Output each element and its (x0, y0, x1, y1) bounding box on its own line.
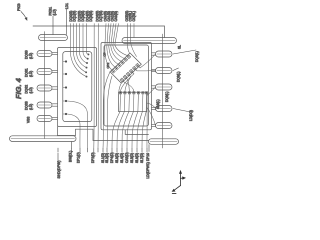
wire V3 top label to pad A2 (109, 24, 119, 65)
svg-text:LD1: LD1 (65, 3, 69, 9)
wire R4 CHP2 to lead R4 (147, 103, 156, 109)
right bus line OL (162, 34, 164, 148)
wire W10 left dot5 to bottom (67, 114, 80, 149)
leader for OL label (66, 9, 68, 35)
leader bottom-right long label (148, 145, 150, 152)
wire D5 CHP2 pad5 down (132, 94, 138, 149)
lead L2 connector (52, 70, 58, 72)
svg-text:(LD): (LD) (29, 104, 33, 110)
wire W9 left dot4 to bottom (67, 101, 87, 149)
svg-text:(LD): (LD) (29, 71, 33, 77)
wire W3c left dot5 finger (63, 113, 65, 115)
svg-text:CA5(D): CA5(D) (125, 152, 129, 163)
wire W6 arc top to right dot4 (77, 24, 87, 68)
wire D4 CHP2 pad4 down (127, 94, 134, 149)
svg-text:(LD): (LD) (29, 53, 33, 59)
svg-text:PKG: PKG (17, 3, 21, 11)
leader bottom-left long label (57, 153, 59, 161)
lead R5 connector (152, 124, 156, 126)
lead L3 connector (52, 87, 58, 89)
svg-text:BW(DL): BW(DL) (68, 151, 72, 162)
svg-text:DP1(D): DP1(D) (77, 152, 81, 163)
svg-text:SL9(L): SL9(L) (156, 99, 160, 109)
wire W2 left dot2 finger (63, 73, 65, 75)
svg-text:DP2(D): DP2(D) (91, 152, 95, 163)
pad row CHP2 top edge (119, 92, 147, 94)
lead L4 (37, 102, 52, 108)
wire X7 CHP1 left lower down (107, 76, 112, 149)
svg-text:SL5(D): SL5(D) (130, 153, 134, 163)
pad B0 (120, 78, 124, 82)
pad pin dots CHP1 (113, 56, 138, 80)
pad pin dots CHP2 (120, 92, 147, 93)
leader bar BW (71, 142, 73, 149)
wire D3 CHP2 pad3 down (122, 94, 129, 149)
chip CHP1 die (rotated) (110, 53, 141, 83)
leader right label R4 (173, 109, 191, 113)
pad B1 (123, 75, 127, 79)
wire W7 arc top to right dot3 (80, 24, 87, 64)
lead L4 connector (52, 104, 58, 106)
pad B5 (136, 63, 140, 67)
svg-text:CA3(S): CA3(S) (114, 11, 118, 21)
svg-text:CP: CP (103, 52, 107, 56)
svg-text:CK(SL): CK(SL) (132, 11, 136, 21)
svg-text:LD(DQ): LD(DQ) (189, 110, 193, 121)
pad B4 (132, 66, 136, 70)
wire V1 top label to pad A0 (105, 24, 113, 71)
pad A1 (115, 67, 119, 71)
lead bottom bus bar (left) (10, 136, 77, 142)
svg-text:DP4(D): DP4(D) (110, 152, 114, 163)
wire X2 pad B1 to CHP2 pad (126, 78, 129, 92)
svg-text:FIG. 4: FIG. 4 (14, 77, 23, 99)
lead L1 connector (52, 52, 58, 54)
lead L1 (37, 51, 52, 57)
svg-text:SL4(D): SL4(D) (120, 153, 124, 163)
lead bottom bus bar (right) (149, 139, 179, 145)
lead L2 (37, 69, 52, 75)
svg-text:CP2: CP2 (106, 62, 110, 68)
wire D6 CHP2 pad6 down (137, 94, 143, 149)
svg-text:VSS: VSS (27, 117, 31, 123)
chip CHP2 die (119, 92, 148, 111)
wire V6 top label to die1 top corner (128, 24, 130, 53)
svg-text:DP10: DP10 (146, 153, 150, 161)
lead R4 (156, 106, 173, 112)
lead L5 (37, 116, 52, 122)
svg-text:DQ3(S): DQ3(S) (81, 11, 85, 22)
lead L5 connector (52, 117, 58, 119)
svg-text:SL7(D): SL7(D) (140, 153, 144, 163)
svg-text:DQ8(L): DQ8(L) (177, 72, 181, 82)
wire X4 pad B3 to CHP2 pad (121, 72, 134, 91)
svg-text:SL6(D): SL6(D) (135, 153, 139, 163)
wire W8 arc top to right dot2 (83, 24, 88, 59)
package PKG2 inner substrate (104, 45, 149, 126)
svg-text:DQ7(S): DQ7(S) (99, 11, 103, 22)
lead R1 (156, 51, 173, 57)
wire W11 gap wire down (93, 24, 95, 149)
svg-text:DQ9(L): DQ9(L) (165, 92, 169, 102)
lead LD top bar (left) (39, 35, 68, 41)
package PKG1 inner substrate (63, 52, 92, 122)
lead R4 connector (152, 107, 156, 109)
wire D1 CHP2 pad1 down (112, 94, 121, 149)
svg-text:DQ5(S): DQ5(S) (89, 11, 93, 22)
wire W5 arc top to right dot5 (74, 24, 87, 73)
leader right label R1 (173, 50, 196, 54)
package PKG1 outer body (58, 48, 97, 127)
pad B2 (126, 72, 130, 76)
svg-text:SHD(DPW): SHD(DPW) (57, 161, 61, 179)
wire R1 pad B5 to lead R1 (138, 54, 155, 68)
wire V5b top label to pad A5 (115, 24, 128, 56)
left bus line OL (44, 32, 46, 139)
lead R1 connector (152, 53, 156, 55)
svg-text:SL: SL (178, 45, 182, 49)
wire R2 pad B4 to lead R2 (135, 69, 155, 71)
lead L3 (37, 85, 52, 91)
bond pads on CHP1 (rotated die) (112, 55, 140, 82)
svg-text:SL3(D): SL3(D) (115, 153, 119, 163)
tick marks above bottom labels (58, 148, 147, 152)
svg-text:SL2(D): SL2(D) (105, 153, 109, 163)
coordinate axis triad (172, 170, 186, 194)
wire X3 pad B2 to CHP2 pad (125, 75, 131, 92)
package PKG1 bottom tab outline (58, 127, 149, 141)
package PKG2 outer body (101, 43, 152, 130)
svg-text:DQS(L): DQS(L) (195, 51, 199, 62)
wire W12 gap wire down (97, 24, 99, 149)
wire V4 top label to pad A3 (111, 24, 122, 62)
svg-text:(LD): (LD) (53, 9, 57, 15)
leader for SB label (52, 16, 54, 35)
pad A5 (127, 55, 131, 59)
wire X6 CHP1 left corner down (103, 72, 110, 149)
wire V7 top label along die1 right (131, 24, 137, 57)
wire R3 CHP2 to lead R3 (147, 87, 156, 96)
wire top signal line SL (33, 26, 165, 38)
wire W4 arc top to right dot6 (71, 24, 87, 77)
pad B3 (129, 69, 133, 73)
pad A4 (124, 58, 128, 62)
wire W1 left dot1 finger (63, 61, 65, 63)
pad A2 (118, 64, 122, 68)
pad A3 (121, 61, 125, 65)
bond pad dots CHP0 right column (87, 53, 89, 55)
lead R3 connector (152, 86, 156, 88)
wire W8b top to right dot1 (87, 24, 89, 55)
wire X1 pad B0 to CHP2 pad (123, 81, 134, 92)
leader right label R2 (173, 68, 179, 71)
svg-text:LD(DPW1): LD(DPW1) (146, 162, 150, 178)
wire D7 CHP2 pad7 down (142, 94, 147, 149)
lead midlines (11, 38, 177, 142)
pad A0 (112, 69, 116, 73)
leader for PKG label (21, 9, 196, 161)
wire D8 CHP2 corner down (146, 112, 148, 149)
wire V5 top label to pad A4 (113, 24, 125, 59)
lead R3 (156, 84, 173, 90)
lead R2 (156, 68, 173, 74)
wire D2 CHP2 pad2 down (117, 94, 125, 149)
wire V2 top label to pad A1 (107, 24, 116, 68)
package PKG2 bottom step line (125, 130, 148, 135)
wire R5 CHP2 to lead R5 (147, 108, 156, 126)
lead R2 connector (152, 69, 156, 71)
svg-text:(LD): (LD) (29, 87, 33, 93)
wire X5 CHP1 bottom corner to CHP2 (119, 83, 122, 92)
bond pad dots CHP0 left column (65, 53, 89, 115)
wire W3b left dot4 finger (63, 100, 65, 102)
wire V8 top label to top lead (133, 24, 135, 38)
wire W3 left dot3 finger (63, 87, 65, 89)
lead top long lead (right) (122, 38, 177, 44)
svg-text:DQ1(S): DQ1(S) (73, 11, 77, 22)
lead R5 (156, 123, 173, 129)
